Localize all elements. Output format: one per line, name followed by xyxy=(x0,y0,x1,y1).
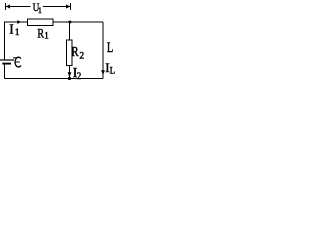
node junction bottom xyxy=(68,77,71,80)
wire R2 branch lower with current arrow I2 xyxy=(68,66,72,79)
wire left upper xyxy=(4,22,6,60)
label R2 xyxy=(71,44,84,62)
svg-text:R: R xyxy=(71,44,79,59)
U1 dimension right tick xyxy=(70,3,72,10)
svg-text:I: I xyxy=(9,21,14,36)
label EMF epsilon: top-left dash xyxy=(13,57,16,59)
label I2 xyxy=(73,65,82,81)
resistor R2 xyxy=(67,40,73,66)
current arrow IL head xyxy=(101,70,105,75)
svg-text:2: 2 xyxy=(77,71,82,81)
svg-text:1: 1 xyxy=(15,27,20,37)
battery EMF source: short thick plate xyxy=(2,63,11,65)
svg-text:L: L xyxy=(110,66,116,76)
wire top left segment xyxy=(4,21,28,23)
node junction top xyxy=(68,21,71,24)
U1 dimension right arrow xyxy=(43,4,70,8)
resistor R1 xyxy=(28,19,54,26)
svg-text:1: 1 xyxy=(44,30,49,40)
U1 dimension left tick xyxy=(5,3,7,10)
wire bottom xyxy=(5,78,104,80)
U1 dimension left arrow xyxy=(6,4,31,8)
label R1 xyxy=(37,27,48,40)
label EMF epsilon: body xyxy=(15,57,21,67)
label EMF epsilon: middle bar xyxy=(16,61,20,63)
wire right branch xyxy=(102,22,104,79)
battery EMF source: long plate xyxy=(0,59,14,61)
wire R2 branch upper xyxy=(69,22,71,40)
label U1 xyxy=(33,1,42,15)
current arrow I1 head xyxy=(17,20,21,24)
svg-text:1: 1 xyxy=(38,5,42,15)
svg-text:L: L xyxy=(107,39,113,55)
label I1 xyxy=(9,21,19,37)
wire left lower xyxy=(4,65,6,79)
label IL xyxy=(105,60,115,76)
wire top right segment xyxy=(53,21,103,23)
svg-text:2: 2 xyxy=(79,51,84,61)
